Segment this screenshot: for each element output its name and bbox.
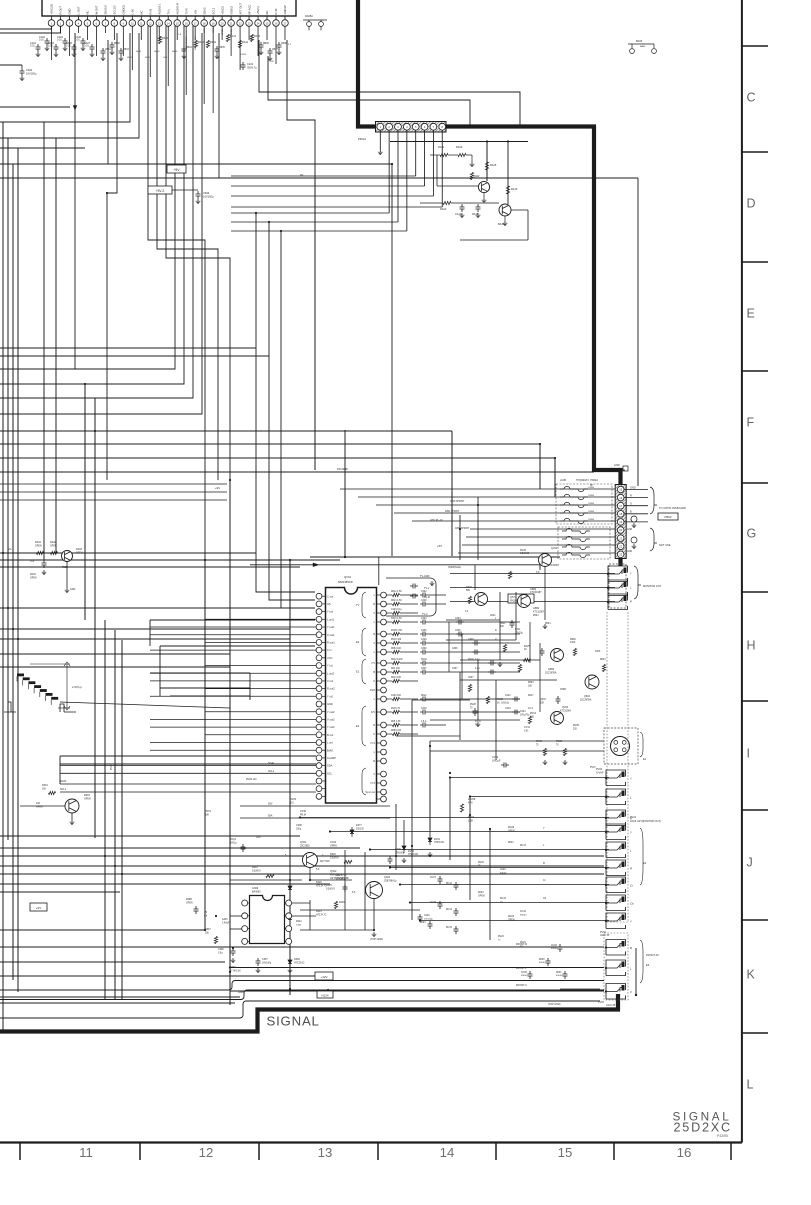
svg-text:R out: R out — [327, 733, 333, 737]
svg-text:I/Y2: I/Y2 — [371, 742, 376, 745]
wire stub — [635, 948, 637, 995]
frame tick right — [742, 370, 768, 372]
wire — [624, 513, 648, 515]
wire — [231, 230, 407, 232]
svg-text:C302: C302 — [421, 591, 427, 593]
DIN pin — [622, 741, 626, 745]
transistor QV03 — [551, 712, 564, 725]
wire — [259, 40, 520, 127]
resistor R612 — [393, 661, 400, 664]
wire — [287, 40, 315, 470]
IC QV01 right pin 6 — [381, 640, 387, 646]
svg-text:F5C/9HD: F5C/9HD — [337, 467, 348, 471]
svg-text:OPEN: OPEN — [588, 487, 595, 489]
svg-text:C50B: C50B — [560, 689, 566, 691]
ground — [503, 221, 508, 226]
wire SCL — [60, 772, 316, 774]
svg-text:KTC3198Y: KTC3198Y — [533, 611, 545, 613]
wire — [0, 638, 290, 640]
svg-text:C307: C307 — [421, 668, 427, 670]
svg-text:VCC: VCC — [327, 656, 333, 660]
capacitor R030 — [546, 958, 551, 966]
IC QV01 left pin 25 — [316, 778, 322, 784]
svg-text:R422: R422 — [252, 866, 258, 869]
svg-text:PV01: PV01 — [630, 816, 637, 819]
wire — [231, 212, 389, 214]
IC QV01 right pin 7 — [381, 649, 387, 655]
svg-text:RV09 110: RV09 110 — [246, 778, 257, 781]
capacitor R033 — [428, 921, 433, 929]
wire pin drop — [284, 26, 286, 40]
connector P801 pin 8 — [439, 123, 446, 130]
capacitor mid — [473, 708, 478, 716]
wire — [170, 695, 250, 697]
wire — [314, 180, 316, 470]
capacitor C305 — [420, 632, 428, 637]
capacitor row — [472, 650, 480, 655]
svg-text:C: C — [747, 91, 756, 105]
svg-text:2SC287BA: 2SC287BA — [580, 699, 592, 702]
pin lead — [77, 16, 79, 20]
svg-text:R030: R030 — [539, 959, 545, 961]
wire to P962A — [394, 512, 616, 514]
diode D421 — [288, 913, 292, 923]
wire to IC pin — [150, 718, 316, 720]
pin lead — [275, 16, 277, 20]
svg-text:2RV08: 2RV08 — [468, 798, 476, 801]
wire — [166, 26, 230, 480]
svg-text:RA03: RA03 — [76, 548, 83, 551]
svg-text:SC01 SHORT: SC01 SHORT — [195, 36, 197, 50]
IC QV01 right pin 14 — [381, 722, 387, 728]
wire — [560, 988, 600, 990]
bead LC04 — [560, 510, 588, 515]
svg-text:P43/95: P43/95 — [717, 1134, 728, 1138]
wire — [0, 961, 225, 963]
svg-text:TV-GND: TV-GND — [420, 575, 430, 578]
wire — [20, 805, 65, 807]
wire — [60, 755, 316, 757]
svg-text:R012 1.5K: R012 1.5K — [391, 591, 402, 593]
wire — [231, 206, 442, 208]
wire +5V rail — [0, 163, 392, 165]
IC QV01 left pin 7 — [316, 640, 322, 646]
wire — [231, 195, 433, 197]
wire — [0, 628, 290, 630]
svg-text:L-IN: L-IN — [131, 9, 135, 14]
svg-text:FRONT-L: FRONT-L — [516, 967, 527, 970]
wire pin drop — [122, 26, 124, 56]
connector P962A pin 22 — [617, 543, 624, 550]
pin 21 of top IC — [228, 20, 235, 27]
capacitor C302 — [420, 593, 428, 598]
resistor pair BA05 — [628, 44, 654, 48]
svg-text:SCL: SCL — [327, 771, 333, 775]
wire — [121, 640, 123, 1000]
wire to IC pin — [150, 695, 316, 697]
IC QV01 left pin 27 — [316, 794, 322, 800]
wire — [395, 804, 397, 870]
svg-text:2SB798A2µ: 2SB798A2µ — [384, 879, 397, 882]
wire — [0, 975, 330, 977]
IC QV01 left pin 13 — [316, 686, 322, 692]
svg-text:C306: C306 — [421, 648, 427, 650]
svg-text:RV24: RV24 — [520, 942, 526, 944]
capacitor CA02 — [45, 38, 50, 46]
op-amp/jungle IC QV01 MM1455XD body — [326, 588, 377, 804]
svg-text:R: R — [373, 724, 375, 727]
wire — [231, 185, 425, 187]
svg-text:C: C — [373, 680, 375, 683]
svg-text:E5V5: E5V5 — [524, 645, 531, 648]
svg-text:GND: GND — [327, 702, 333, 706]
wire row extension — [446, 633, 520, 635]
wire — [373, 899, 375, 931]
svg-text:TV-R: TV-R — [184, 8, 188, 14]
wire — [0, 855, 604, 857]
svg-text:RA04: RA04 — [30, 573, 36, 576]
connector P962A pin 15 — [617, 486, 624, 493]
svg-text:R425: R425 — [326, 884, 332, 887]
wire — [300, 929, 374, 931]
IC QV01 left pin 12 — [316, 678, 322, 684]
pin 14 of top IC — [165, 20, 172, 27]
svg-text:C529(6V22µ: C529(6V22µ — [448, 567, 462, 569]
wire pin drop — [266, 26, 268, 40]
IC QV01 right pin 10 — [381, 678, 387, 684]
svg-text:RV30: RV30 — [536, 740, 543, 743]
svg-text:RV23: RV23 — [498, 936, 504, 938]
svg-text:5P: 5P — [590, 484, 593, 487]
svg-text:+5V(1/3): +5V(1/3) — [50, 4, 54, 14]
IC QV01 right pin 18 — [381, 758, 387, 764]
wire DIN feed — [430, 740, 604, 742]
transistor QX01 — [303, 853, 318, 868]
capacitor CB7 — [277, 42, 282, 50]
svg-text:C360: C360 — [218, 948, 224, 951]
svg-text:TPQ030AY P962A: TPQ030AY P962A — [576, 478, 598, 482]
svg-text:I/GH: I/GH — [370, 689, 375, 692]
svg-text:D477: D477 — [356, 824, 362, 827]
svg-text:R: R — [630, 867, 632, 871]
arrow — [313, 563, 319, 567]
pin 3 of top IC — [66, 20, 73, 27]
wire — [507, 142, 509, 205]
wire DIN feed 2 — [430, 750, 604, 752]
wire — [74, 33, 76, 369]
svg-text:R-IN: R-IN — [148, 9, 152, 15]
wire FRONT-V — [230, 990, 604, 992]
ground — [372, 932, 377, 937]
wire SCL1 — [60, 791, 316, 793]
svg-text:CB03: CB03 — [123, 49, 129, 51]
svg-text:0.01: 0.01 — [48, 45, 53, 48]
svg-text:BA05: BA05 — [640, 45, 646, 48]
svg-text:Y/V: Y/V — [371, 662, 375, 665]
resistor RA02 — [51, 551, 58, 554]
wire — [289, 560, 291, 995]
svg-text:C42?: C42? — [336, 874, 342, 877]
IC QV01 left pin 1 — [316, 593, 322, 599]
stepped wire B above border — [0, 990, 604, 1000]
resistor mid — [503, 645, 506, 652]
svg-text:25C3852: 25C3852 — [300, 844, 310, 847]
svg-text:JACK GP (MONITOR OUT): JACK GP (MONITOR OUT) — [630, 820, 661, 823]
pin 24 of top IC — [255, 20, 262, 27]
pin 20 of top IC — [219, 20, 226, 27]
resistor R04 — [393, 670, 400, 673]
svg-text:OPEN: OPEN — [588, 511, 595, 513]
+5V-2 boxed label — [148, 186, 172, 194]
bracket E2 — [640, 828, 643, 885]
svg-text:R023: R023 — [508, 842, 514, 844]
connector P801 pin 5 — [412, 123, 419, 130]
svg-text:RA77100: RA77100 — [320, 860, 330, 863]
svg-text:25D2XC: 25D2XC — [674, 1121, 732, 1135]
svg-text:OPEN: OPEN — [84, 798, 91, 800]
svg-text:R017: R017 — [528, 695, 534, 697]
svg-text:R out2: R out2 — [327, 687, 335, 691]
capacitor C360 — [231, 948, 236, 956]
capacitor CA06 — [81, 38, 86, 46]
svg-text:S1/2B: S1/2B — [240, 54, 246, 56]
wire — [0, 347, 256, 349]
svg-text:RF/A: RF/A — [250, 34, 253, 40]
svg-text:16V100µ: 16V100µ — [203, 195, 214, 199]
svg-text:17.6K3.3K: 17.6K3.3K — [230, 970, 241, 972]
svg-text:KTC3198Y: KTC3198Y — [560, 710, 572, 712]
svg-text:OPEN: OPEN — [222, 28, 224, 35]
svg-text:Q604: Q604 — [584, 695, 591, 698]
svg-text:HTZ/9.1B: HTZ/9.1B — [408, 854, 418, 856]
svg-text:RZ01: RZ01 — [42, 784, 49, 787]
svg-text:I/Y3: I/Y3 — [371, 782, 376, 785]
svg-text:C429 0.1µ: C429 0.1µ — [391, 609, 402, 611]
wire jack feed — [420, 920, 609, 922]
ground — [498, 662, 503, 667]
svg-text:1/2W100: 1/2W100 — [520, 553, 530, 555]
svg-text:RZ03: RZ03 — [84, 794, 91, 797]
wire — [396, 735, 460, 737]
IC QV01 left pin 8 — [316, 647, 322, 653]
resistor R013 — [393, 679, 400, 682]
wire to IC pin — [150, 649, 316, 651]
svg-text:130K: 130K — [570, 642, 576, 644]
svg-text:0252 SHORT: 0252 SHORT — [455, 527, 470, 530]
wire — [0, 552, 256, 554]
jack FRONT V — [605, 984, 626, 1000]
svg-text:TV-V: TV-V — [422, 613, 428, 616]
wire — [289, 930, 291, 956]
resistor RV26b — [508, 572, 511, 579]
wire connector drop — [388, 130, 390, 213]
wire to P962A — [466, 536, 616, 538]
svg-text:C in2: C in2 — [327, 679, 334, 683]
capacitor C304 — [420, 620, 428, 625]
pin 19 of top IC — [210, 20, 217, 27]
wire — [391, 164, 393, 556]
bracket E1 — [640, 732, 643, 757]
svg-text:HTZJ5.6C: HTZJ5.6C — [294, 962, 305, 964]
pad GND2 — [631, 537, 637, 543]
IC QV01 right pin 11 — [381, 687, 387, 693]
svg-text:P802: P802 — [664, 515, 671, 519]
svg-text:1/2W3.9: 1/2W3.9 — [330, 857, 339, 859]
resistor mid — [468, 685, 471, 692]
svg-text:TV-L: TV-L — [424, 587, 430, 590]
svg-text:R424: R424 — [296, 921, 302, 923]
capacitor CB0 — [101, 48, 106, 56]
wire — [0, 891, 120, 893]
wire — [511, 209, 528, 211]
wire — [390, 141, 528, 143]
svg-text:RC12: RC12 — [446, 883, 453, 885]
wire — [429, 750, 431, 836]
svg-text:BIAS: BIAS — [327, 748, 333, 752]
svg-text:QV02: QV02 — [551, 547, 558, 550]
wire — [0, 835, 300, 837]
pin lead — [104, 16, 106, 20]
svg-text:NOT USE: NOT USE — [659, 543, 671, 547]
resistor RA20b — [443, 201, 451, 204]
frame tick bottom — [139, 1143, 141, 1161]
pin 22 of top IC — [237, 20, 244, 27]
svg-text:RA10: RA10 — [162, 37, 169, 40]
IC QV01 left pin 2 — [316, 601, 322, 607]
svg-text:RB06: RB06 — [263, 43, 269, 45]
svg-text:R521: R521 — [500, 623, 506, 625]
svg-text:QV03: QV03 — [562, 706, 569, 709]
wire connector drop — [432, 130, 434, 196]
capacitor R031 — [563, 971, 568, 979]
svg-text:155133: 155133 — [356, 828, 364, 830]
wire to IC pin — [150, 680, 316, 682]
resistor RA19 — [506, 186, 509, 194]
svg-text:RA14: RA14 — [242, 41, 249, 44]
IC QV01 left pin 14 — [316, 693, 322, 699]
svg-text:0.01: 0.01 — [57, 39, 62, 42]
pin 17 of top IC — [192, 20, 199, 27]
svg-text:SC02 SHORT: SC02 SHORT — [186, 36, 188, 50]
connector P962A pin 16 — [617, 494, 624, 501]
svg-text:SDA1: SDA1 — [268, 762, 275, 765]
wire pin drop — [248, 26, 250, 40]
svg-text:GND: GND — [70, 588, 76, 591]
svg-text:C319: C319 — [505, 708, 511, 710]
pin 23 of top IC — [246, 20, 253, 27]
svg-text:3.9µ: 3.9µ — [218, 952, 223, 954]
wire — [256, 213, 315, 592]
wire — [300, 909, 420, 911]
svg-text:R: R — [630, 946, 632, 950]
pin lead — [51, 16, 53, 20]
svg-text:PB.34: PB.34 — [300, 814, 307, 816]
capacitor C306 — [420, 650, 428, 655]
capacitor RC12 — [454, 882, 459, 890]
wire — [309, 868, 311, 881]
wire — [0, 666, 230, 668]
wire pin drop — [77, 26, 79, 33]
pin 27 of top IC — [282, 20, 289, 27]
wire — [172, 189, 198, 191]
capacitor R36B — [194, 906, 199, 914]
svg-text:+9V: +9V — [256, 835, 261, 839]
wire — [84, 384, 86, 620]
wire to IC pin — [205, 688, 316, 690]
capacitor row — [512, 697, 520, 702]
svg-text:L out1: L out1 — [327, 617, 335, 621]
capacitor CV34 — [501, 763, 509, 768]
wire — [0, 26, 175, 369]
wire to P962A — [470, 528, 616, 530]
diode D477 — [350, 827, 354, 837]
wire jack feed — [450, 777, 609, 779]
wire — [0, 996, 240, 998]
wire — [0, 865, 604, 867]
IC G369 pin 3 — [242, 926, 248, 932]
wire — [0, 873, 604, 875]
monitor out jack R — [607, 594, 628, 610]
svg-text:16V1µ: 16V1µ — [230, 842, 237, 844]
wire FRONT-L — [230, 967, 604, 969]
pin lead — [176, 16, 178, 20]
svg-text:13: 13 — [318, 1145, 333, 1160]
pin lead — [59, 16, 61, 20]
svg-text:RG08: RG08 — [508, 827, 515, 829]
wire jack feed — [300, 817, 609, 819]
wire — [446, 619, 500, 621]
IC top strip body — [42, 0, 296, 16]
svg-text:0252 PL-19: 0252 PL-19 — [430, 519, 443, 522]
boxed label RN2604 — [508, 594, 534, 603]
svg-text:I: I — [747, 747, 750, 761]
svg-text:L out: L out — [327, 741, 333, 745]
svg-text:0.01: 0.01 — [30, 45, 35, 48]
svg-text:110K: 110K — [468, 820, 474, 822]
svg-text:1K-3: 1K-3 — [528, 708, 534, 710]
svg-text:JACK 3P: JACK 3P — [600, 934, 610, 937]
wire SDA — [60, 765, 316, 767]
+9V boxed label left — [30, 903, 47, 911]
wire — [0, 106, 70, 108]
IC G369 pin 6 — [286, 926, 292, 932]
IC QV01 right pin 17 — [381, 749, 387, 755]
svg-text:V out1: V out1 — [327, 633, 335, 637]
wire — [230, 879, 302, 881]
frame tick right — [742, 1032, 768, 1034]
svg-text:RC31: RC31 — [556, 740, 563, 743]
frame tick bottom — [19, 1143, 21, 1161]
IC QV01 right pin 9 — [381, 669, 387, 675]
svg-text:R31B 1.5K: R31B 1.5K — [391, 630, 403, 632]
frame bottom border — [0, 1141, 742, 1143]
pin lead — [122, 16, 124, 20]
svg-text:MONITOR OUT: MONITOR OUT — [643, 584, 662, 588]
svg-text:C305: C305 — [455, 630, 461, 632]
capacitor CB1 — [110, 42, 115, 50]
wire row extension — [446, 711, 520, 713]
wire pin drop — [51, 26, 53, 60]
svg-text:E1: E1 — [356, 670, 360, 674]
resistor R05 — [393, 723, 400, 726]
svg-text:C303: C303 — [421, 600, 427, 602]
pin lead — [68, 16, 70, 20]
pin 25 of top IC — [264, 20, 271, 27]
wire jack feed — [410, 902, 609, 904]
svg-text:OPEN: OPEN — [36, 806, 43, 808]
svg-text:W-OUT: W-OUT — [95, 5, 99, 14]
wire row extension — [446, 651, 520, 653]
